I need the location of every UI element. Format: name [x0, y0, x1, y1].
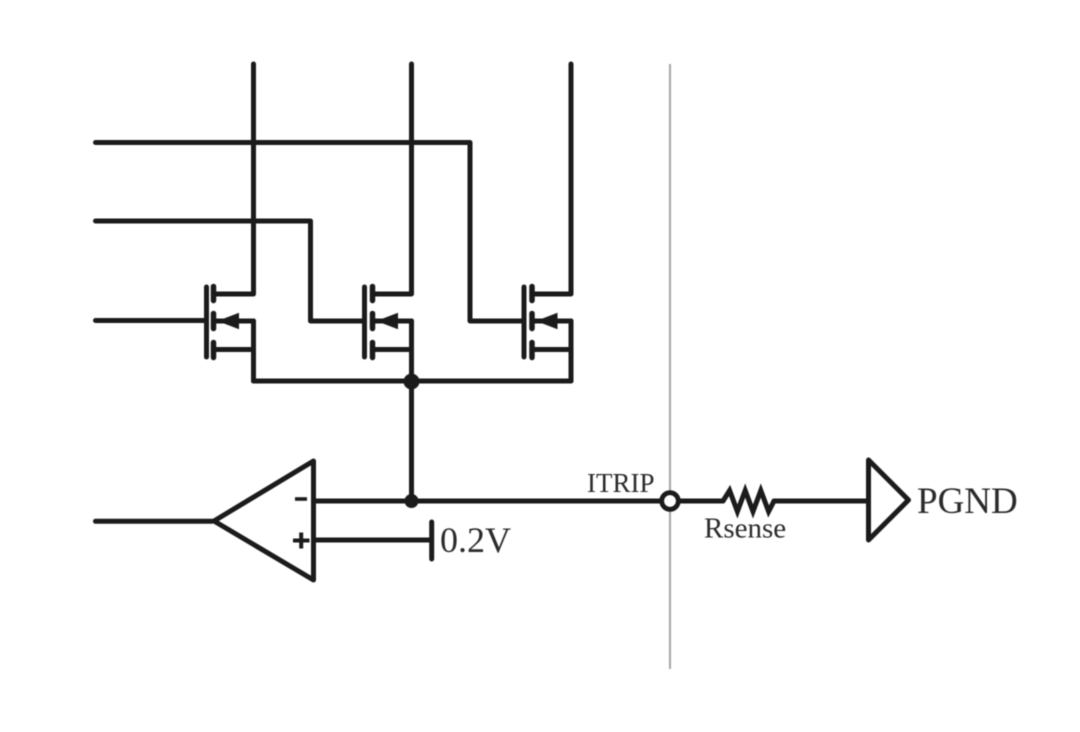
svg-text:0.2V: 0.2V [440, 520, 511, 560]
svg-text:Rsense: Rsense [704, 513, 786, 545]
svg-text:PGND: PGND [917, 481, 1018, 522]
svg-text:ITRIP: ITRIP [587, 468, 655, 498]
